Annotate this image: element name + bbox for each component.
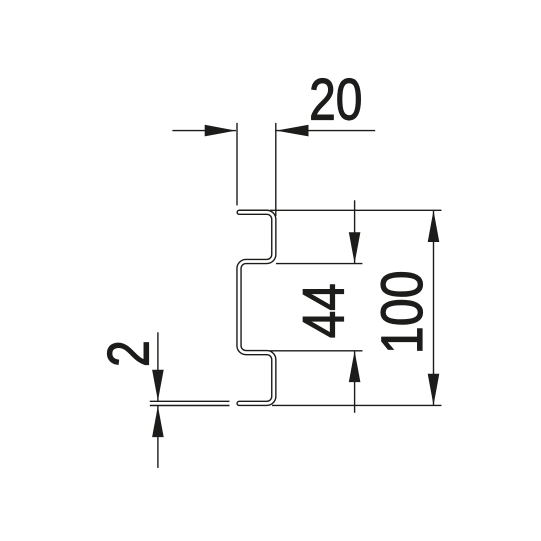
svg-text:100: 100 [368, 270, 435, 354]
svg-text:20: 20 [309, 67, 362, 133]
svg-text:2: 2 [96, 340, 162, 367]
svg-text:44: 44 [291, 283, 357, 338]
